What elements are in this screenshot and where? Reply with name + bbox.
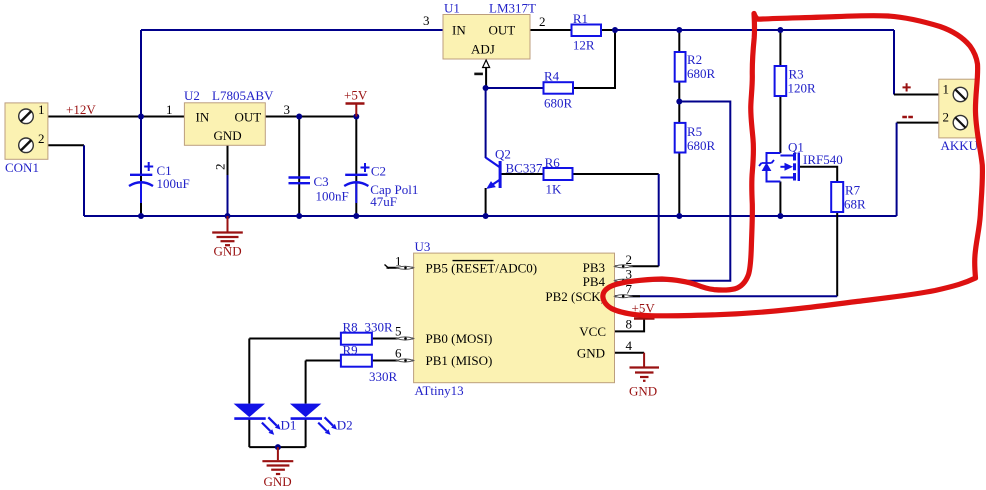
resistor R5 — [675, 123, 716, 153]
svg-text:IN: IN — [452, 23, 466, 38]
ground LEDs — [262, 447, 293, 474]
svg-text:PB2 (SCK): PB2 (SCK) — [545, 289, 605, 304]
resistor R7 — [831, 182, 866, 212]
resistor R1 — [572, 11, 602, 53]
svg-text:+12V: +12V — [66, 102, 96, 117]
wire AKKU plus vertical — [893, 30, 895, 95]
LED D2 — [290, 404, 353, 435]
wire CON1 pin2 down — [33, 144, 84, 146]
wire R4 right vertical — [573, 30, 615, 88]
wire D1 cathode down — [248, 419, 250, 448]
connector CON1 — [5, 102, 48, 175]
svg-text:1: 1 — [943, 82, 950, 97]
connector AKKU — [939, 79, 979, 153]
svg-text:C2: C2 — [371, 164, 386, 179]
svg-text:1: 1 — [38, 102, 45, 117]
svg-text:2: 2 — [213, 164, 228, 171]
wire Q1 gate to R7 — [800, 167, 837, 182]
label plus — [903, 83, 911, 91]
resistor R9 — [341, 343, 398, 385]
svg-text:AKKU: AKKU — [941, 138, 979, 153]
wire R9 left — [306, 360, 341, 362]
wire top rail left — [141, 29, 443, 31]
svg-text:LM317T: LM317T — [489, 1, 536, 16]
wire PB1 to R9 — [372, 360, 414, 362]
capacitor C1 — [129, 162, 190, 203]
wire D2 anode vertical — [305, 361, 307, 404]
svg-text:330R: 330R — [365, 320, 394, 335]
wire Q2 base to R6 — [502, 173, 544, 175]
pin arrows U3 left — [397, 266, 414, 362]
label minus — [902, 116, 913, 119]
svg-text:12R: 12R — [573, 38, 595, 53]
svg-text:GND: GND — [214, 128, 242, 143]
wire R1 to junction — [601, 29, 615, 31]
svg-text:3: 3 — [423, 13, 430, 28]
wire C2 vertical — [355, 117, 357, 217]
wire R8 left — [249, 338, 341, 340]
svg-text:47uF: 47uF — [370, 194, 397, 209]
svg-text:PB4: PB4 — [583, 274, 606, 289]
MCU U3 ATtiny13 — [395, 239, 633, 398]
wire C1 vertical lower — [140, 175, 142, 216]
LED D1 — [234, 404, 297, 435]
svg-text:VCC: VCC — [579, 324, 606, 339]
svg-text:Q2: Q2 — [495, 147, 511, 162]
svg-text:IN: IN — [196, 110, 210, 125]
pin arrows U3 right — [615, 265, 632, 298]
pin number 1 rotated — [474, 73, 483, 76]
transistor Q2 BC337 — [486, 147, 543, 189]
svg-text:120R: 120R — [788, 81, 817, 96]
svg-text:L7805ABV: L7805ABV — [212, 88, 274, 103]
wire U2 out to caps — [265, 116, 356, 118]
svg-text:3: 3 — [284, 102, 291, 117]
svg-text:5: 5 — [395, 324, 402, 339]
wire PB2 pin7 stub — [615, 295, 641, 297]
svg-text:ADJ: ADJ — [471, 42, 495, 57]
capacitor C3 — [289, 174, 349, 204]
svg-text:680R: 680R — [544, 96, 573, 111]
ground U2 — [212, 216, 243, 245]
svg-text:R6: R6 — [545, 155, 561, 170]
svg-text:U2: U2 — [184, 88, 200, 103]
svg-text:BC337: BC337 — [506, 161, 543, 176]
svg-text:R3: R3 — [789, 67, 804, 82]
wire R3 to Q1 — [779, 96, 781, 153]
resistor R8 — [341, 320, 393, 345]
svg-text:100uF: 100uF — [157, 176, 190, 191]
wire R2 top — [678, 30, 680, 52]
wire C1 vertical upper — [140, 117, 142, 176]
power +5V at VCC — [632, 301, 656, 319]
svg-text:2: 2 — [38, 131, 45, 146]
svg-text:+5V: +5V — [344, 88, 368, 103]
svg-text:GND: GND — [577, 346, 605, 361]
wire PB3 pin2 — [615, 265, 659, 267]
wire ADJ junction to R4 — [486, 87, 544, 89]
svg-text:OUT: OUT — [489, 23, 516, 38]
svg-text:R1: R1 — [573, 11, 588, 26]
wire Q1 to rail — [779, 182, 781, 217]
wire D1 anode vertical — [248, 339, 250, 404]
svg-text:R9: R9 — [343, 343, 358, 358]
svg-text:330R: 330R — [369, 369, 398, 384]
svg-text:CON1: CON1 — [5, 160, 39, 175]
svg-text:GND: GND — [629, 384, 657, 399]
wire input vertical — [140, 30, 142, 117]
wire R3 top — [779, 30, 781, 66]
capacitor C2 — [344, 163, 418, 209]
wire D2 cathode down — [305, 419, 307, 448]
svg-text:6: 6 — [395, 346, 402, 361]
svg-text:1: 1 — [166, 102, 173, 117]
svg-text:R7: R7 — [845, 183, 861, 198]
svg-text:PB3: PB3 — [583, 260, 605, 275]
svg-text:R8: R8 — [343, 320, 358, 335]
resistor R2 — [675, 52, 716, 82]
svg-text:PB5 (RESET/ADC0): PB5 (RESET/ADC0) — [426, 261, 538, 276]
svg-text:PB1 (MISO): PB1 (MISO) — [426, 353, 493, 368]
svg-text:8: 8 — [626, 317, 633, 332]
svg-text:680R: 680R — [687, 66, 716, 81]
ground U3 — [630, 353, 660, 381]
wire C3 vertical — [298, 117, 300, 217]
svg-text:OUT: OUT — [235, 110, 262, 125]
svg-text:PB0 (MOSI): PB0 (MOSI) — [426, 331, 493, 346]
svg-text:4: 4 — [626, 338, 633, 353]
svg-text:ATtiny13: ATtiny13 — [415, 383, 464, 398]
resistor R6 — [544, 155, 573, 197]
wire U2 pin2 vertical — [227, 145, 229, 175]
wire VCC pin8 — [615, 319, 645, 332]
resistor R3 — [775, 66, 816, 96]
svg-text:68R: 68R — [844, 197, 866, 212]
svg-text:680R: 680R — [687, 138, 716, 153]
wire ADJ pin — [485, 67, 487, 88]
svg-text:U3: U3 — [415, 239, 431, 254]
svg-text:1K: 1K — [546, 182, 563, 197]
svg-text:R2: R2 — [687, 52, 702, 67]
transistor Q1 IRF540 — [759, 140, 843, 182]
svg-text:IRF540: IRF540 — [803, 152, 843, 167]
resistor R4 — [544, 69, 574, 111]
regulator U1 LM317T — [423, 1, 546, 60]
svg-text:R5: R5 — [687, 124, 702, 139]
wire R2R5 junction to PB4 — [615, 102, 731, 281]
pin ADJ arrow — [483, 60, 490, 68]
wire LED gnd horizontal — [249, 446, 305, 448]
svg-text:2: 2 — [943, 110, 950, 125]
power +5V at C2 — [344, 88, 368, 117]
wire R2 bottom junction — [678, 82, 680, 123]
wire CON1 pin1 to U2 — [33, 116, 184, 118]
wire AKKU minus vertical — [897, 122, 953, 124]
wire R7 to PB2 — [836, 212, 838, 296]
wire Q2 emitter vertical — [485, 188, 487, 216]
svg-text:100nF: 100nF — [316, 189, 349, 204]
svg-text:D2: D2 — [337, 418, 353, 433]
wire PB0 to R8 — [372, 338, 414, 340]
wire R6 to PB3 — [573, 173, 659, 175]
svg-text:GND: GND — [264, 474, 292, 489]
svg-text:R4: R4 — [544, 69, 560, 84]
svg-text:2: 2 — [539, 14, 546, 29]
wire top rail right — [530, 29, 572, 31]
svg-text:U1: U1 — [444, 1, 460, 16]
regulator U2 L7805ABV — [166, 88, 290, 170]
wire GND pin4 — [615, 352, 645, 354]
wire bottom rail — [84, 215, 897, 217]
wire Q2 collector vertical — [485, 88, 487, 158]
red annotation loop — [603, 14, 983, 316]
svg-text:GND: GND — [214, 244, 242, 259]
wire PB5 pin1 — [387, 267, 414, 269]
svg-text:Q1: Q1 — [788, 140, 804, 155]
wire R5 bottom — [678, 152, 680, 216]
svg-text:C3: C3 — [314, 174, 329, 189]
